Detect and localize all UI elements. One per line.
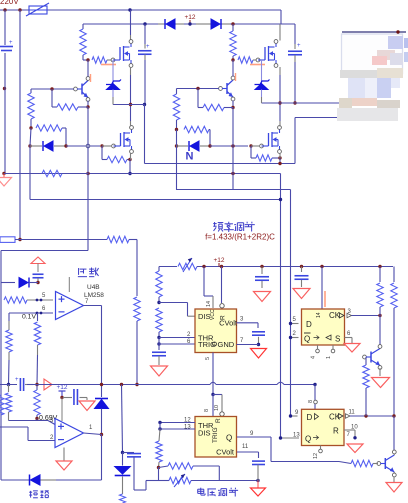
node lower gate left: [100, 144, 103, 147]
resistor R-gate1 pullup: [82, 24, 84, 29]
node +in b: [40, 299, 43, 302]
svg-text:DIS: DIS: [198, 429, 211, 438]
label orange Q3: [90, 74, 92, 82]
node opamp2 out: [100, 433, 103, 436]
capacitor C-in electrolytic: [0, 46, 13, 48]
transistor Q2t: [377, 462, 381, 466]
capacitor C-timing: [152, 351, 166, 353]
svg-text:5: 5: [205, 357, 211, 360]
pin circle mosfet4 gate: [260, 144, 264, 148]
node mid-rail right a: [278, 101, 281, 104]
wire cap2 top corner: [294, 24, 296, 44]
ground C-rail2: [293, 289, 310, 299]
resistor R-freq chain upper: [158, 267, 160, 272]
node ovl: [36, 281, 39, 284]
node rail 301: [300, 265, 303, 268]
pot R-freq: [159, 266, 177, 268]
IC U1B 556 timer: [195, 417, 237, 458]
wire mosfet1 drain: [130, 10, 132, 35]
node +12 cap: [60, 396, 63, 399]
capacitor C-x134: [123, 452, 135, 454]
wire x145 half-bridge mid: [144, 105, 146, 164]
node rail1-mosfet1 drain: [128, 8, 131, 11]
node s2 121: [120, 383, 123, 386]
wire chainB top: [37, 313, 39, 321]
diode D1 top: [158, 23, 165, 25]
ground Q1t: [372, 378, 390, 388]
ground C-op2: [86, 398, 88, 401]
wire cvolt gnd: [258, 337, 260, 345]
svg-text:LM258: LM258: [84, 292, 104, 299]
svg-text:TRIG: TRIG: [198, 340, 216, 349]
svg-text:+: +: [146, 44, 150, 50]
wire collector Q2t: [393, 416, 395, 450]
wire vcc rail 556: [197, 266, 393, 268]
wire FF-drive right net: [280, 174, 282, 439]
ground Q2t: [386, 483, 402, 493]
wire divider column x137: [136, 240, 138, 297]
node rail2 x232: [231, 172, 234, 175]
pot R-vadj: [158, 468, 160, 481]
zener Z1 left: [112, 60, 114, 84]
diode D4 right: [177, 145, 189, 147]
pin circle mosfet1 gate: [111, 58, 115, 62]
node rail 204: [202, 265, 205, 268]
node mid-rail right b: [293, 101, 296, 104]
node +12 stem: [188, 22, 191, 25]
node d5b: [121, 451, 124, 454]
svg-text:S: S: [335, 335, 340, 344]
node CK1: [378, 314, 381, 317]
wire out1 to trig2: [212, 395, 214, 417]
pin circle ff2 s: [314, 400, 318, 404]
node rail1-cap junction: [3, 8, 6, 11]
svg-text:10: 10: [351, 425, 358, 431]
node gate-drive2: [231, 58, 234, 61]
MOSFET Q1 upper-left: [113, 59, 120, 61]
node dis2: [158, 427, 161, 430]
node pwm: [157, 466, 160, 469]
svg-text:13: 13: [184, 425, 191, 431]
resistor R-chainA lower: [5, 393, 11, 412]
node base divider right: [196, 87, 199, 90]
node ff2 r: [353, 436, 356, 439]
pin stub FF2 12: [320, 446, 322, 450]
wire out1 to reset2: [213, 394, 222, 396]
node chainA row: [7, 383, 10, 386]
label orange FF1: [324, 291, 326, 307]
node left divider: [29, 126, 32, 129]
resistor R-stub bottom: [120, 494, 126, 503]
svg-text:Q: Q: [305, 435, 311, 444]
resistor R-gs left: [101, 146, 103, 160]
IC U2B flip-flop: [302, 409, 345, 445]
wire out1 column down: [101, 306, 103, 398]
wire Q3 emitter: [87, 101, 89, 108]
ground rail-mid2: [3, 174, 5, 178]
wire CVolt 556-1: [237, 322, 259, 324]
node rail1 mosfet4: [278, 162, 281, 165]
pin bubble R 556-1: [220, 304, 224, 308]
wire cap1 top: [144, 24, 146, 44]
node base divider left: [50, 87, 53, 90]
node div-x137: [135, 383, 138, 386]
wire x176 down: [176, 130, 178, 147]
node -in b: [40, 312, 43, 315]
wire mosfet2 drain: [280, 10, 282, 24]
voltage adj label: [200, 488, 202, 495]
pin stub FF1 4: [317, 345, 319, 349]
wire opamp1 -in row: [9, 312, 53, 314]
zener Z2 right: [261, 60, 263, 84]
capacitor C-rail2: [301, 267, 303, 273]
wire Q5 emitter: [232, 101, 234, 108]
wire FF2 R: [344, 429, 355, 431]
IC U1A 556 timer: [195, 309, 237, 353]
resistor R-div1: [107, 236, 129, 242]
pin circle mosfet3 gate: [112, 144, 116, 148]
resistor chain x37 lower: [36, 385, 38, 391]
capacitor C2 electrolytic: [288, 50, 302, 52]
svg-text:4: 4: [311, 356, 317, 359]
svg-text:220V: 220V: [0, 0, 19, 6]
ground FF2 R: [347, 444, 363, 453]
svg-text:N: N: [186, 151, 194, 163]
resistor R-freq chain lower: [156, 308, 162, 332]
wire cvolt2 down: [257, 465, 259, 481]
node mosfet3 source: [128, 158, 131, 161]
label orange net G2: [250, 64, 265, 66]
node s2 101: [100, 383, 103, 386]
wire Q1t emitter gnd: [379, 368, 381, 376]
wire mosfet3 drain: [130, 105, 132, 122]
svg-text:D: D: [306, 320, 312, 329]
wire TRIG: [159, 343, 195, 345]
overload label: [82, 268, 84, 270]
svg-text:10: 10: [214, 405, 220, 411]
wire DIS route: [159, 302, 188, 304]
node rail1-x20 junction: [18, 8, 21, 11]
ground opamp2: [63, 448, 65, 461]
node FF2 Q: [279, 436, 282, 439]
resistor R-chainB upper: [34, 322, 40, 345]
svg-text:14: 14: [316, 312, 322, 318]
wire pwm corner: [218, 466, 220, 481]
MOSFET Q2 upper-right: [258, 59, 265, 61]
svg-text:CVolt: CVolt: [219, 319, 238, 328]
wire top rail 220V: [0, 9, 281, 11]
wire right column R2v: [393, 267, 395, 283]
node mid-rail left b: [143, 103, 146, 106]
wire feedback: [101, 435, 103, 481]
node x88 diode row: [86, 144, 90, 148]
wire transformer feed lower: [295, 102, 340, 104]
port arrow right: [44, 379, 52, 390]
wire Q3 collector: [87, 60, 89, 77]
op-amp U4A triangle: [55, 419, 84, 448]
wire reset pin 556-1: [221, 267, 223, 304]
svg-text:+: +: [15, 377, 19, 383]
resistor R-emitter2: [197, 89, 199, 108]
wire mosfet2 source down: [279, 67, 281, 75]
wire diode row to gate: [66, 145, 100, 147]
wire mosfet4 source: [279, 153, 281, 158]
svg-text:D: D: [307, 413, 313, 422]
wire FF1 Qbar: [291, 337, 299, 339]
wire short row: [1, 479, 30, 481]
node rail-mid2 gnd: [2, 172, 5, 175]
vcc stub opamp1: [68, 277, 70, 292]
transistor Q5 gate driver right: [219, 87, 223, 91]
transistor Q3 gate driver left: [74, 87, 78, 91]
wire mid-rail right: [262, 102, 296, 104]
wire OUT 556-1: [212, 353, 214, 395]
svg-text:Q: Q: [226, 434, 232, 443]
wire Q5 base row: [177, 88, 220, 90]
node +in a: [36, 299, 39, 302]
node x5 mid: [3, 87, 6, 90]
svg-text:R: R: [215, 418, 222, 423]
pin stub FF1 1: [332, 345, 334, 349]
node rail 219: [220, 265, 223, 268]
wire gate lead Q4: [102, 145, 111, 147]
svg-text:8: 8: [204, 409, 210, 412]
svg-text:CK: CK: [329, 311, 341, 320]
node THR: [157, 336, 160, 339]
pin bubble R 556-2: [220, 412, 224, 416]
wire rail-mid2: [4, 173, 281, 175]
capacitor C-ovl: [33, 273, 44, 275]
wire x20 down: [19, 10, 21, 240]
freq label: [214, 222, 216, 227]
wire FF2 Q: [281, 437, 300, 439]
node TRIG: [157, 342, 160, 345]
resistor R-gate1 series: [92, 57, 107, 63]
wire chainA bottom corner: [8, 412, 10, 421]
wire FF2 D: [291, 415, 298, 417]
capacitor C-op2: [63, 397, 72, 399]
wire corner x66: [65, 128, 67, 146]
wire Q3 base row: [31, 88, 74, 90]
wire FF1 S: [345, 337, 353, 339]
node rail 262: [260, 265, 263, 268]
wire Q1t base: [365, 356, 367, 358]
svg-text:DIS: DIS: [198, 312, 211, 321]
capacitor C1 electrolytic: [138, 50, 152, 52]
resistor R-base1 vertical: [30, 89, 32, 93]
wire x88 long: [87, 107, 89, 146]
vcc stub opamp2: [61, 398, 63, 422]
wire diode row right to gate: [210, 145, 248, 147]
wire collector Q1t: [379, 316, 381, 346]
svg-text:1: 1: [326, 356, 332, 359]
resistor R-shunt box: [0, 237, 15, 243]
wire L-bottom drive: [30, 199, 281, 201]
node drive L-T: [279, 198, 282, 201]
capacitor C-trip: [19, 378, 21, 391]
resistor R-emitter1: [51, 89, 53, 107]
wire x365 join: [365, 403, 367, 416]
power arrow +vcc small: [31, 257, 45, 264]
wire chainA mid: [8, 352, 10, 360]
node -in a: [36, 312, 39, 315]
node 0.69: [35, 417, 38, 420]
wire cap134 bottom jog: [134, 489, 146, 491]
node thr2: [158, 421, 161, 424]
node ck2 a: [364, 414, 367, 417]
wire mosfet1 source down: [130, 67, 132, 75]
svg-text:12: 12: [313, 453, 319, 459]
wire D5b column: [122, 385, 123, 453]
diode D5 column upper: [95, 398, 108, 400]
capacitor C-cvolt2: [252, 460, 265, 462]
resistor R-chainA upper: [6, 330, 12, 352]
node diode row right1: [175, 144, 178, 147]
resistor R-ck1: [379, 267, 381, 283]
wire gate lead Q6: [251, 145, 259, 147]
wire transformer feed upper: [294, 118, 296, 164]
wire FF1 CK: [347, 313, 352, 317]
fuse F1: [29, 6, 47, 14]
node ck2 b: [392, 414, 395, 417]
wire mosfet4 drain: [279, 103, 281, 121]
wire R-bottom drive: [176, 189, 291, 191]
svg-text:14: 14: [206, 301, 212, 307]
node lower gate right: [249, 144, 252, 147]
wire gnd pin: [237, 344, 259, 346]
label orange net G1: [101, 64, 116, 66]
svg-text:Q: Q: [304, 335, 310, 344]
wire DIS2: [160, 428, 195, 430]
wire opamp1 +in row: [27, 299, 53, 301]
resistor R-leftedge: [0, 395, 4, 415]
resistor R-gs right: [250, 146, 252, 158]
short label: [30, 491, 32, 498]
resistor R-row2 left: [36, 125, 62, 131]
wire shunt row: [15, 239, 107, 241]
node rail 322: [320, 265, 323, 268]
svg-text:+: +: [9, 40, 13, 46]
node out1: [211, 393, 214, 396]
diode D6 short: [29, 475, 31, 486]
wire THR: [159, 337, 195, 339]
svg-text:+: +: [297, 43, 301, 49]
svg-text:VCC: VCC: [210, 309, 216, 320]
wire rail2: [83, 23, 295, 25]
node rail x88: [86, 172, 89, 175]
node s2 315: [313, 383, 316, 386]
MOSFET Q6 lower-right: [262, 145, 269, 147]
transistor Q1t: [363, 355, 367, 359]
wire vcc jog 556-1: [203, 267, 205, 297]
wire x30 down: [30, 128, 31, 146]
wire Q5 collector: [232, 60, 234, 77]
node rail2 right R: [231, 22, 234, 25]
svg-text:11: 11: [349, 410, 356, 416]
resistor R-gate2 pullup: [232, 24, 234, 31]
ground FF1 S: [344, 344, 360, 353]
node right divider: [175, 128, 178, 131]
node mosfet4 source: [278, 156, 281, 159]
resistor R-sense row: [4, 173, 40, 175]
resistor R-pwm1: [159, 423, 161, 430]
wire gnd stem: [257, 481, 259, 489]
svg-text:8: 8: [308, 400, 314, 403]
node diode row left1: [28, 144, 31, 147]
node cap row: [35, 383, 38, 386]
wire left edge column: [0, 251, 2, 481]
node emitter2: [231, 106, 234, 109]
svg-text:f=1.433/(R1+2R2)C: f=1.433/(R1+2R2)C: [205, 233, 275, 242]
wire S2 long row: [0, 384, 17, 386]
resistor R-b Q2t: [339, 462, 351, 464]
ground bottom: [251, 488, 266, 496]
wire 069 stub: [36, 419, 38, 421]
wire -in2 upper row: [0, 426, 28, 428]
wire chainA lower: [8, 385, 10, 393]
wire mosfet3 source: [130, 153, 132, 160]
node rail2 mosfet3: [128, 172, 131, 175]
svg-text:13: 13: [293, 433, 300, 439]
op-amp U4B triangle: [56, 292, 84, 320]
wire mid-rail left: [113, 104, 145, 106]
svg-text:U4B: U4B: [87, 284, 100, 291]
resistor R-base2 vertical: [176, 89, 178, 95]
wire FF1 D: [291, 323, 299, 325]
svg-text:TRIG: TRIG: [212, 427, 219, 443]
resistor R-ovl in: [4, 297, 27, 303]
node emitter1: [86, 105, 89, 108]
wire cap2 bottom: [294, 55, 296, 62]
wire Q2 out 556: [237, 436, 271, 438]
svg-text:R: R: [333, 427, 339, 436]
wire opamp2 output right: [84, 433, 102, 435]
MOSFET Q4 lower-left: [114, 145, 121, 147]
resistor R-gate2 series: [238, 57, 253, 63]
svg-text:GND: GND: [218, 340, 235, 349]
wire corner x211: [209, 130, 211, 147]
node FF2 D: [289, 414, 292, 417]
wire x232 long: [232, 108, 234, 190]
wire mosaic top: [342, 31, 406, 33]
node mosaic: [396, 30, 399, 33]
svg-text:+12: +12: [56, 384, 67, 391]
node x232 diode row: [231, 144, 234, 147]
wire opamp1 out: [84, 305, 102, 307]
IC U2A flip-flop: [302, 309, 345, 345]
wire C-ovl down: [37, 278, 39, 283]
wire x5 down: [4, 10, 6, 45]
diode D3 left: [30, 145, 42, 147]
wire chainA top: [8, 313, 10, 321]
node mid-rail left a: [129, 103, 132, 106]
node freq node1: [157, 301, 160, 304]
ground C-rail1: [254, 292, 271, 302]
node FF1 D: [289, 322, 292, 325]
node bottom row: [256, 479, 259, 482]
svg-text:+12: +12: [184, 14, 195, 21]
wire timing cap gnd: [158, 356, 160, 365]
svg-text:11: 11: [242, 444, 249, 450]
wire FF2 CK: [346, 414, 351, 418]
capacitor C-rail1: [261, 267, 263, 275]
svg-text:CVolt: CVolt: [216, 448, 235, 457]
resistor R-b Q1t: [365, 357, 367, 365]
node cap1 top: [143, 22, 146, 25]
wire sense row2: [1, 250, 88, 252]
svg-text:+12: +12: [213, 257, 224, 264]
diode D7 column lower: [122, 453, 124, 466]
